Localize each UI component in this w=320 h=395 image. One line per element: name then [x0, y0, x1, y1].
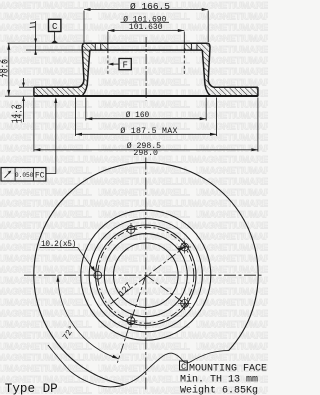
- FCF leader: [46, 99, 56, 174]
- left inner wall: [83, 50, 90, 95]
- svg-text:14.0: 14.0: [17, 104, 25, 123]
- svg-text:101.630: 101.630: [129, 23, 163, 32]
- dim 14.2/14.0: [23, 78, 25, 87]
- svg-text:70.0: 70.0: [3, 59, 11, 78]
- 72 deg arc: [58, 275, 119, 359]
- svg-text:Ø 166.5: Ø 166.5: [130, 1, 170, 12]
- flange underside: [90, 49, 202, 51]
- ring bottom full width: [34, 95, 258, 97]
- hatch left metal: ring + wall + flange: [34, 43, 95, 95]
- datum C box: [49, 19, 61, 31]
- dim Ø187.5 MAX: [76, 133, 217, 135]
- outer OD circle (clipped at bottom by tear): [34, 162, 258, 384]
- left corner + outer wall + fillet: [79, 43, 85, 87]
- right corner + outer wall + fillet: [208, 43, 214, 87]
- dim Ø298.5/298.0: [34, 149, 258, 151]
- bore hidden lines dashed: [107, 50, 109, 74]
- bore edges in flange: [107, 43, 109, 50]
- svg-text:Min. TH 13 mm: Min. TH 13 mm: [180, 373, 258, 385]
- radial 324 deg: [146, 275, 191, 307]
- svg-text:Ø 187.5 MAX: Ø 187.5 MAX: [120, 126, 177, 136]
- part outline: [34, 43, 258, 96]
- right inner wall: [202, 50, 209, 95]
- bolt holes: [91, 223, 191, 327]
- small thickness dim with double ticks: [30, 22, 35, 25]
- svg-text:MOUNTING FACE: MOUNTING FACE: [189, 363, 267, 374]
- tear boundary: [48, 345, 229, 387]
- dim Ø160: [86, 118, 206, 120]
- svg-text:FC: FC: [35, 171, 45, 180]
- svg-text:0.050: 0.050: [15, 172, 34, 179]
- dim 70.2/70.0: [8, 43, 10, 96]
- svg-text:C: C: [181, 362, 186, 372]
- F box with leader: [119, 59, 131, 70]
- 10.2(x5) label leader: [40, 246, 78, 248]
- mounting face top: [85, 42, 208, 44]
- dim Ø101.690/101.630: [121, 21, 170, 23]
- svg-text:Type DP: Type DP: [5, 382, 58, 395]
- extension of flange underside to left: [26, 49, 90, 51]
- radial 127 line (36 deg): [111, 246, 187, 304]
- concentric circles: [81, 210, 211, 340]
- extension of mounting face to left: [8, 42, 85, 44]
- radial 252 deg: [117, 275, 145, 363]
- svg-text:F: F: [122, 61, 127, 71]
- ring left edge: [33, 87, 35, 96]
- svg-text:C: C: [52, 22, 58, 32]
- runout FCF box: [1, 168, 46, 182]
- dim Ø166.5: [84, 9, 208, 11]
- bolt hole edges in flange (left): [94, 43, 96, 50]
- ring top right: [213, 86, 258, 88]
- hatch right metal: ring + wall + flange: [197, 43, 258, 95]
- bolt circle dash-dot: [98, 227, 194, 323]
- svg-text:Ø 160: Ø 160: [126, 111, 150, 120]
- boxed C at mounting face note: [180, 361, 188, 370]
- svg-text:Weight 6.85Kg: Weight 6.85Kg: [180, 384, 258, 395]
- disc center line (section): [145, 37, 147, 101]
- center lines: [24, 274, 262, 276]
- ring right edge: [257, 87, 259, 96]
- svg-text:298.0: 298.0: [133, 149, 158, 158]
- ring top left: [34, 86, 79, 88]
- svg-text:10.2(x5): 10.2(x5): [41, 241, 76, 249]
- bolt hole edges in flange (right): [191, 43, 193, 50]
